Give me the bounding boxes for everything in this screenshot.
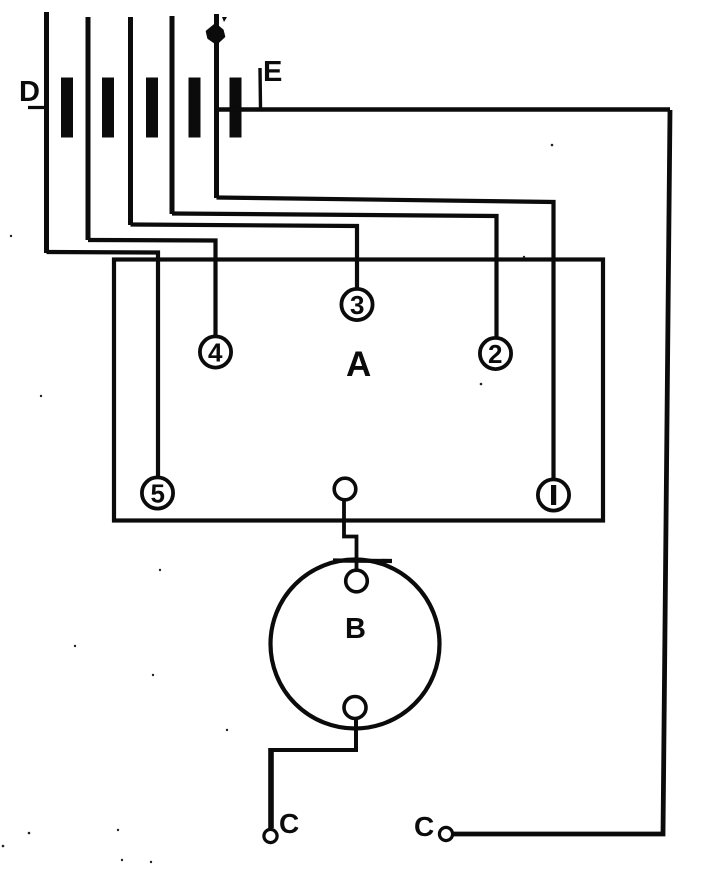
svg-text:B: B	[345, 613, 366, 645]
switch box A	[114, 260, 603, 521]
battery thick plate (short) S4	[189, 78, 201, 138]
wiper terminal on box A	[334, 478, 356, 500]
scan speck dots (noise)	[2, 144, 554, 864]
battery thick plate (short) S1	[61, 78, 73, 138]
terminal C (left)	[264, 829, 277, 842]
svg-text:2: 2	[488, 339, 502, 369]
battery thick plate (short) S3	[146, 78, 158, 138]
arrowhead on plate P5	[207, 25, 224, 44]
contact 3	[341, 289, 372, 320]
battery long plate P1	[44, 12, 49, 253]
wire: wiper terminal to lamp B top	[344, 500, 357, 571]
svg-text:5: 5	[151, 479, 165, 509]
battery long plate P5 (arrow plate)	[214, 14, 219, 198]
svg-text:C: C	[414, 811, 434, 842]
wire: plate P5 tap to contact 1	[217, 198, 554, 479]
contact 2	[480, 338, 511, 369]
flattened top chord of lamp B	[333, 558, 392, 563]
battery thick plate (short) S5	[230, 78, 242, 138]
wire: lamp B bottom to terminal C (left)	[271, 719, 356, 751]
ink speck right of arrow stub	[222, 17, 227, 22]
lamp B bottom terminal	[344, 697, 366, 719]
battery long plate P4	[170, 16, 175, 214]
lamp B top terminal	[346, 570, 368, 592]
lamp B body	[271, 560, 440, 729]
svg-text:3: 3	[350, 290, 364, 320]
wire: plate P3 tap to contact 3	[131, 225, 358, 289]
tick from label D to plate P1	[28, 106, 47, 109]
svg-text:D: D	[19, 76, 40, 108]
contact 4	[200, 336, 231, 367]
battery long plate P2	[86, 17, 91, 240]
contact 1	[538, 479, 569, 510]
wire: left drop to terminal C (left)	[268, 748, 274, 828]
wire: right riser, E line down to terminal C (right)	[453, 110, 671, 834]
wire: plate P1 tap to contact 5	[47, 252, 159, 477]
wire E : plate P5 to right riser	[217, 107, 671, 112]
battery long plate P3	[128, 17, 133, 225]
battery thick plate (short) S2	[102, 78, 114, 138]
svg-text:A: A	[346, 345, 371, 384]
wire: plate P2 tap to contact 4	[88, 240, 216, 336]
tick from label E to wire E	[258, 68, 262, 108]
svg-text:C: C	[279, 808, 299, 839]
svg-text:E: E	[263, 56, 282, 88]
svg-text:4: 4	[208, 338, 223, 368]
wire: plate P4 tap to contact 2	[172, 214, 497, 338]
contact 5	[142, 477, 173, 508]
terminal C (right)	[439, 827, 452, 840]
